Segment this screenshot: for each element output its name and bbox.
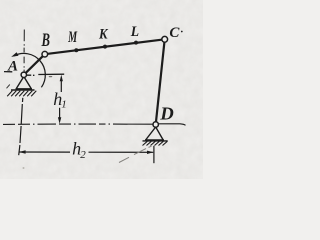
support triangle D — [145, 127, 164, 140]
svg-text:C: C — [169, 24, 180, 41]
dot after C — [181, 31, 183, 33]
vertical dash-dot line above A — [23, 30, 25, 72]
ground line A — [11, 89, 35, 91]
svg-text:K: K — [98, 26, 108, 43]
small stray mark left of A support — [7, 85, 10, 89]
support triangle A — [16, 77, 33, 89]
ground line D — [143, 140, 168, 142]
h1 up arrow — [60, 78, 62, 92]
svg-text:A: A — [7, 58, 18, 74]
svg-text:2: 2 — [80, 149, 86, 161]
h2 dimension line with arrows — [19, 151, 70, 153]
dash under label A — [4, 71, 12, 73]
link C-D — [156, 39, 165, 124]
h1 upper reference line — [27, 74, 65, 75]
svg-text:B: B — [41, 31, 50, 51]
faint diagonal marks below D support — [119, 146, 152, 162]
vertical reference line below A support — [19, 98, 23, 155]
horizontal line right of D — [158, 124, 185, 126]
faint dot bottom-left — [23, 167, 25, 169]
joint D (pivot) — [153, 122, 158, 127]
vertical line below D support — [153, 146, 155, 163]
joint A (pivot) — [21, 72, 26, 77]
faint speck right of arc — [49, 76, 53, 77]
paper background — [0, 0, 203, 179]
rotation arc around A — [14, 53, 45, 87]
h1 down arrow — [59, 108, 61, 121]
joint C — [162, 36, 168, 42]
svg-text:1: 1 — [61, 99, 67, 111]
crank link A-B — [24, 54, 45, 75]
point K — [103, 45, 107, 49]
hatching A — [7, 91, 36, 97]
point M — [74, 48, 78, 52]
svg-text:L: L — [130, 23, 139, 40]
horizontal dash-dot centerline through D level — [3, 123, 153, 125]
hatching D — [143, 141, 168, 145]
rotation arrowhead — [11, 52, 18, 57]
point L — [134, 41, 138, 45]
svg-text:D: D — [159, 104, 174, 124]
coupler link B-C — [45, 39, 165, 54]
joint B — [42, 51, 48, 57]
svg-text:M: M — [67, 29, 77, 46]
